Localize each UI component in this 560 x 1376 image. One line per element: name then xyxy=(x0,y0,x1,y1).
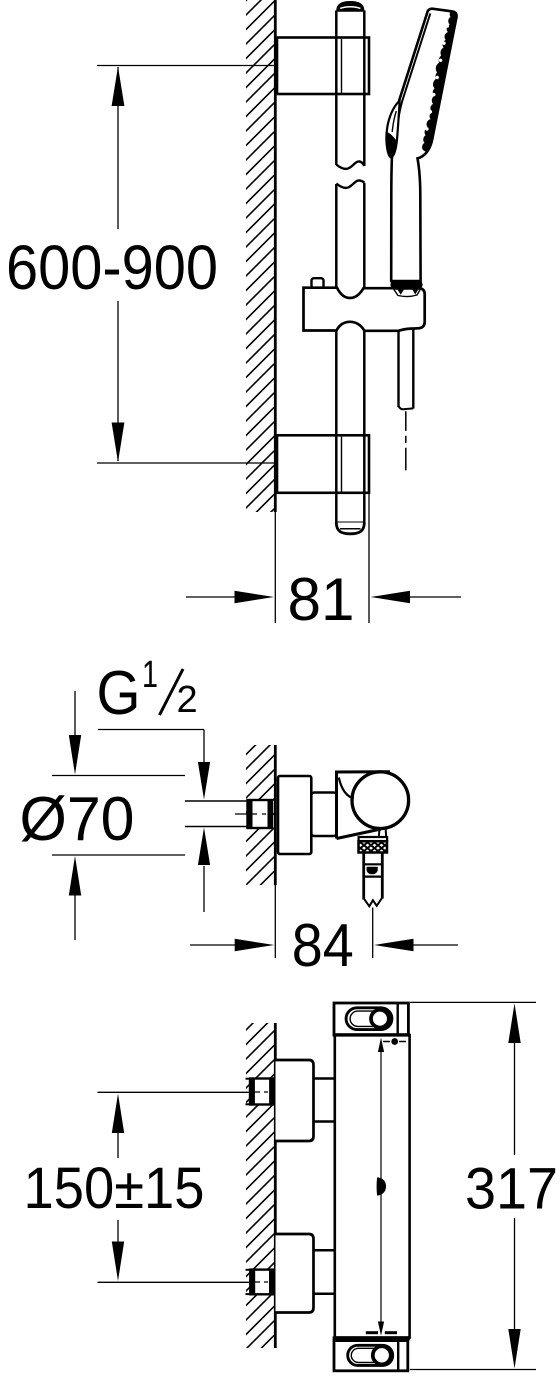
mixer body xyxy=(311,793,336,837)
dimension 317 xyxy=(410,1002,558,1369)
dimension 81 xyxy=(186,493,461,633)
dimension 150 +/- 15 xyxy=(24,1092,251,1282)
slider holder assembly xyxy=(304,278,425,331)
label G 1/2 xyxy=(97,654,211,912)
hand shower handle end in holder (black band) xyxy=(391,281,423,297)
bottom union nut in wall xyxy=(246,1270,282,1295)
top S-union xyxy=(276,1060,335,1141)
wall hatching middle xyxy=(246,745,276,885)
wall union nut xyxy=(235,800,292,828)
dimension 84 xyxy=(190,885,458,979)
lever knob xyxy=(352,772,409,829)
svg-text:84: 84 xyxy=(292,912,354,979)
hand shower head xyxy=(386,9,458,281)
bottom wall bracket xyxy=(277,435,369,493)
rail break symbol xyxy=(336,161,364,187)
rail bottom end cap xyxy=(336,523,364,534)
svg-text:81: 81 xyxy=(288,566,355,633)
hose centerline xyxy=(405,411,407,470)
svg-text:1: 1 xyxy=(142,654,158,696)
body centerline with arrows xyxy=(366,1038,406,1336)
bottom S-union xyxy=(276,1234,335,1313)
safestop mark xyxy=(377,1177,386,1195)
supply pipe xyxy=(185,801,248,827)
escutcheon D70 xyxy=(278,776,311,854)
thermostat top cap xyxy=(333,1003,410,1035)
top union nut in wall xyxy=(246,1079,282,1105)
svg-text:G: G xyxy=(97,659,141,728)
dimension 600-900 xyxy=(6,66,276,464)
lever housing cone xyxy=(337,772,391,839)
svg-text:317: 317 xyxy=(465,1157,558,1222)
shower hose xyxy=(399,329,414,409)
top wall bracket xyxy=(277,38,369,95)
svg-text:600-900: 600-900 xyxy=(6,233,218,303)
svg-text:Ø70: Ø70 xyxy=(20,785,135,854)
shower rail tube xyxy=(336,11,364,523)
spray nozzle band xyxy=(422,10,459,152)
wall hatching bottom xyxy=(246,1023,276,1348)
thermostat bottom cap xyxy=(333,1338,410,1370)
svg-text:150±15: 150±15 xyxy=(24,1156,205,1221)
rail top end cap xyxy=(336,1,364,11)
wall hatching top xyxy=(246,0,276,512)
hose connection under knob xyxy=(359,828,388,906)
thumb grip on head back xyxy=(386,101,399,157)
dimension D70 xyxy=(20,691,186,940)
svg-text:2: 2 xyxy=(177,679,198,721)
thermostat main body xyxy=(335,1035,410,1338)
